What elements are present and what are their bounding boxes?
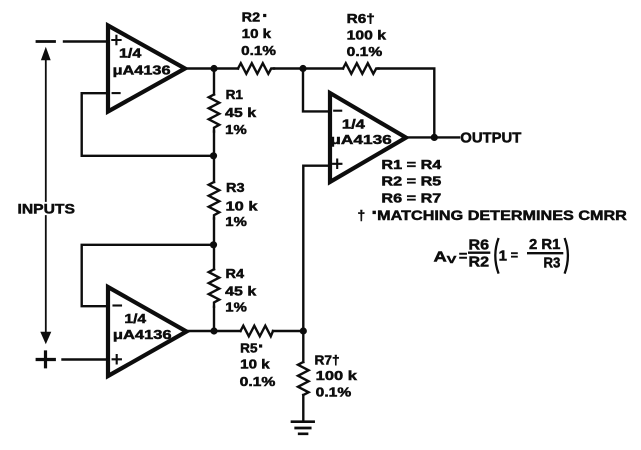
svg-text:2 R1: 2 R1 [529,236,560,253]
svg-text:100 k: 100 k [316,368,358,383]
svg-text:R3: R3 [544,255,561,272]
op-amp U2 (1/4 uA4136, bottom) [108,287,187,376]
resistor R6 (horizontal) [343,63,379,74]
label R7 value [315,352,358,399]
svg-text:R7†: R7† [315,352,340,367]
inputs span arrow [40,47,51,344]
svg-text:0.1%: 0.1% [316,385,352,400]
wire U1 inverting feedback [82,93,213,156]
svg-text:45 k: 45 k [225,105,257,120]
svg-text:=: = [511,249,518,263]
wire R4 bottom [213,307,215,331]
svg-text:V: V [447,254,457,266]
svg-text:100 k: 100 k [347,28,387,43]
wire U3 output [406,136,459,138]
svg-text:R6 = R7: R6 = R7 [381,191,441,206]
wire R3 top [213,156,215,182]
wire R6 to output node [379,69,435,138]
svg-text:R6: R6 [469,237,490,254]
resistor R2 (horizontal) [238,63,274,74]
svg-text:OUTPUT: OUTPUT [460,131,521,147]
wire R1 bottom [213,132,215,156]
wire R5 to node [273,330,303,332]
svg-text:1/4: 1/4 [119,46,142,61]
svg-text:10 k: 10 k [242,26,272,41]
label R2 value [241,10,276,58]
svg-text:†: † [358,208,366,223]
svg-text:A: A [434,249,447,266]
svg-text:μA4136: μA4136 [113,327,172,342]
wire R3 bottom [213,219,215,245]
svg-text:0.1%: 0.1% [240,374,276,389]
svg-text:1%: 1% [225,214,247,229]
op-amp U3 (1/4 uA4136, output) [330,93,406,182]
wire node to U3 non-inverting input [303,166,330,331]
wire R4 top [213,245,215,269]
wire U1 output [185,67,238,69]
wire bottom input to U2+ [63,358,109,360]
ground [292,422,314,434]
node U1 output [210,65,217,72]
wire R7 to ground [302,395,304,421]
svg-text:R6†: R6† [347,11,375,26]
wire U2 inverting feedback [82,245,213,306]
svg-text:INPUTS: INPUTS [18,202,75,217]
svg-text:1: 1 [499,247,507,264]
svg-text:R3: R3 [226,180,245,195]
svg-text:R2 = R5: R2 = R5 [381,174,441,189]
svg-text:45 k: 45 k [225,284,257,299]
node R5/R7/U3+ [300,327,307,334]
wire R2 to R6 [274,67,343,69]
node R2/R6/U3- [299,65,306,72]
resistor R4 (vertical) [209,269,220,307]
svg-text:0.1%: 0.1% [241,43,276,58]
svg-text:R1 = R4: R1 = R4 [381,157,442,172]
minus input terminal [37,40,55,43]
resistor R1 (vertical) [209,95,220,132]
svg-text:R2: R2 [242,10,260,25]
wire R1 top [213,69,215,95]
svg-text:10 k: 10 k [240,356,270,371]
svg-text:MATCHING DETERMINES CMRR: MATCHING DETERMINES CMRR [377,208,627,223]
svg-text:R2: R2 [469,253,490,270]
node output [431,134,438,141]
svg-text:1/4: 1/4 [124,311,147,326]
plus input terminal [37,352,54,367]
label R5 value [240,341,276,389]
op-amp U1 (1/4 uA4136, top) [108,26,185,112]
wire R7 top [302,331,304,362]
node R3/R4/feedback [210,241,217,248]
wire U2 output [187,330,241,332]
svg-text:R1: R1 [226,87,243,102]
label R6 value [347,11,387,59]
note matching determines CMRR [358,208,627,223]
label R1 value [225,87,257,137]
resistor R5 (horizontal) [241,326,274,337]
svg-text:μA4136: μA4136 [113,62,171,77]
resistor R7 (vertical) [298,362,309,395]
svg-text:=: = [459,248,467,264]
svg-text:R5: R5 [240,341,257,356]
label R3 value [225,180,258,229]
gain formula Av = R6/R2 (1 + 2R1/R3) [434,236,568,274]
svg-text:R4: R4 [226,266,245,281]
node U2 output [210,327,217,334]
node junction R1/R3/feedback [210,152,217,159]
label R4 value [225,266,257,315]
resistor R3 (vertical) [209,182,220,219]
svg-text:10 k: 10 k [226,198,259,213]
svg-text:1%: 1% [225,122,247,137]
svg-text:1%: 1% [225,300,247,315]
wire node to U3 inverting input [303,69,330,112]
svg-text:μA4136: μA4136 [330,132,392,147]
svg-text:0.1%: 0.1% [347,44,383,59]
svg-text:1/4: 1/4 [342,116,366,131]
wire top input to U1+ [64,40,108,42]
